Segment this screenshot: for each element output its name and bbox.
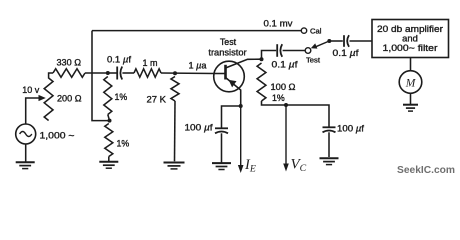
- wire pivot to C4: [329, 40, 343, 42]
- switch arm with arrowhead: [311, 41, 330, 49]
- node B junction dot (between 1% resistors): [108, 119, 112, 123]
- node E junction dot (collector): [260, 57, 264, 61]
- transistor Q1 emitter lead: [226, 78, 241, 107]
- transistor Q1 base bar: [224, 65, 227, 80]
- svg-text:10 v: 10 v: [22, 85, 40, 95]
- transistor Q1 (test transistor) circle: [214, 61, 245, 92]
- switch pivot dot: [327, 39, 331, 43]
- label 1% (R7): [272, 93, 285, 103]
- label Test: [220, 37, 237, 47]
- svg-text:VC: VC: [291, 157, 307, 174]
- capacitor C3 0.1µf: [277, 44, 282, 57]
- svg-text:200 Ω: 200 Ω: [57, 94, 82, 104]
- amplifier U1 text: [377, 23, 443, 53]
- svg-text:M: M: [405, 77, 417, 89]
- potentiometer R1 200Ω: [44, 78, 53, 121]
- svg-text:330 Ω: 330 Ω: [57, 58, 82, 68]
- svg-text:100 Ω: 100 Ω: [271, 82, 296, 92]
- capacitor C1 0.1µf: [117, 67, 122, 80]
- label 27 K: [147, 93, 167, 104]
- wire emitter to C2: [222, 106, 241, 128]
- label 330 Ω: [57, 58, 82, 68]
- label V_C: [291, 157, 307, 174]
- capacitor C2 100µf: [215, 128, 228, 133]
- wire C5 to ground: [328, 132, 330, 157]
- Cal contact (open circle): [301, 28, 306, 33]
- capacitor C4 0.1µf: [344, 35, 349, 47]
- wire R3 to node B: [108, 115, 110, 121]
- node D junction dot (emitter): [239, 104, 243, 108]
- svg-text:1,000~ filter: 1,000~ filter: [383, 42, 438, 53]
- svg-text:1,000 ~: 1,000 ~: [40, 130, 76, 141]
- svg-text:1%: 1%: [117, 139, 130, 149]
- label 1 m: [143, 58, 158, 68]
- ground below C5: [320, 158, 339, 164]
- meter M1 circle: [399, 71, 422, 94]
- wire R2 right to node A: [85, 72, 108, 74]
- Test contact (open circle): [305, 48, 311, 54]
- label 0.1 µf (C4): [333, 48, 359, 58]
- svg-text:Test: Test: [220, 37, 237, 47]
- AC source V1 1,000~ generator: [16, 124, 36, 144]
- svg-text:1%: 1%: [272, 93, 285, 103]
- wire collector node up to C3: [262, 51, 277, 60]
- wire meter to ground: [410, 93, 412, 104]
- wire source-bottom to ground: [25, 144, 27, 162]
- label 1% lower: [117, 139, 130, 149]
- svg-text:0.1 µf: 0.1 µf: [272, 59, 298, 69]
- svg-text:IE: IE: [244, 157, 256, 174]
- ground below meter: [403, 105, 418, 111]
- label 200 Ω: [57, 94, 82, 104]
- label 100 µf (C5): [337, 124, 364, 134]
- wire box to meter: [410, 58, 412, 71]
- svg-text:1 m: 1 m: [143, 58, 158, 68]
- label 1,000~: [40, 130, 76, 141]
- label 1 µa: [189, 61, 208, 71]
- svg-text:transistor: transistor: [208, 48, 246, 58]
- resistor R2 330Ω: [53, 69, 85, 78]
- label I_E: [244, 157, 256, 174]
- node A junction dot: [106, 71, 110, 75]
- transistor Q1 collector lead: [226, 59, 262, 68]
- label 0.1 mv: [264, 19, 293, 30]
- node C junction dot (27K tap): [173, 71, 177, 75]
- current arrow IE: [238, 106, 244, 173]
- ground below source: [16, 162, 35, 168]
- ground below R4: [99, 162, 118, 168]
- node F junction dot (Vc tap): [284, 103, 288, 107]
- capacitor C5 100µf: [323, 127, 336, 132]
- svg-text:Cal: Cal: [310, 27, 322, 36]
- wire R6 to ground: [174, 101, 177, 161]
- wiper arrow into pot: [39, 95, 46, 101]
- svg-text:0.1 µf: 0.1 µf: [107, 55, 131, 65]
- svg-text:SeekIC.com: SeekIC.com: [397, 165, 455, 176]
- svg-text:100 µf: 100 µf: [337, 124, 364, 134]
- amplifier U1 box: [372, 20, 449, 58]
- label 100 µf (C2): [185, 122, 213, 132]
- svg-text:0.1 µf: 0.1 µf: [333, 48, 359, 58]
- svg-text:1 µa: 1 µa: [189, 61, 208, 71]
- resistor R3 1% (upper divider): [104, 77, 112, 115]
- wire C4 to amplifier box: [350, 40, 373, 42]
- wire C1 to R5: [122, 72, 134, 74]
- label transistor: [208, 48, 246, 58]
- resistor R6 27K: [171, 77, 179, 102]
- label 1% upper: [115, 92, 128, 102]
- transistor Q1 emitter arrow (PNP): [229, 80, 237, 88]
- wire C3 to Test contact: [283, 50, 306, 52]
- label 10 v: [22, 85, 40, 95]
- wire source-top to wiper: [26, 98, 39, 124]
- label 100 Ω: [271, 82, 296, 92]
- svg-text:1%: 1%: [115, 92, 128, 102]
- watermark SeekIC.com: [397, 165, 455, 176]
- resistor R7 100Ω: [257, 63, 266, 101]
- svg-text:Test: Test: [306, 55, 321, 64]
- wire R4 to ground: [108, 157, 110, 162]
- wire node A to C1: [108, 72, 117, 74]
- wire cal horizontal 0.1 mv line: [92, 30, 302, 32]
- wire C2 to ground: [221, 133, 223, 162]
- label Test (switch): [306, 55, 321, 64]
- resistor R4 1% (lower divider): [105, 124, 113, 157]
- ground below R6: [164, 163, 185, 169]
- wire pot-top to R2 left: [49, 73, 53, 79]
- label Cal: [310, 27, 322, 36]
- ground below C2: [212, 163, 231, 169]
- wire cal riser (node between 1% resistors up to cal line): [92, 31, 110, 121]
- wire base lead: [215, 73, 226, 75]
- current arrow VC: [283, 105, 289, 172]
- resistor R5 1m: [134, 69, 161, 77]
- wire R5 to transistor base: [161, 72, 215, 75]
- label 0.1 µf (C1): [107, 55, 131, 65]
- label 0.1 µf (C3): [272, 59, 298, 69]
- svg-text:27 K: 27 K: [147, 93, 167, 104]
- svg-text:0.1 mv: 0.1 mv: [264, 19, 293, 30]
- wire R7 bottom rail: [262, 101, 330, 127]
- svg-text:100 µf: 100 µf: [185, 122, 213, 132]
